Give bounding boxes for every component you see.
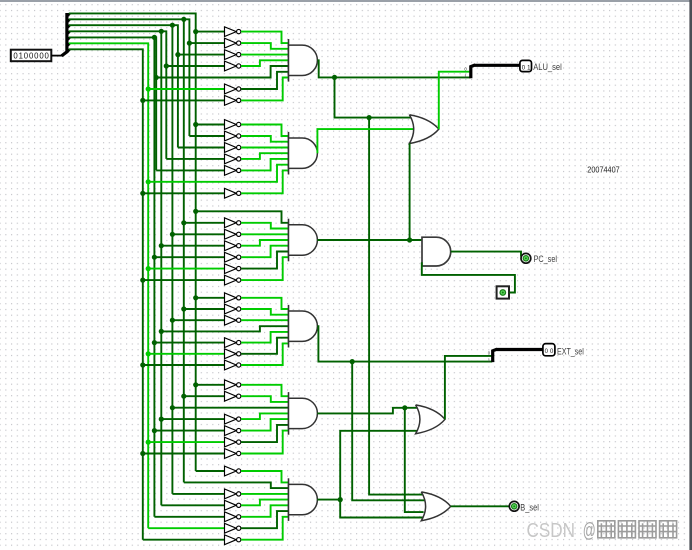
NOT gate G3R2 — [225, 218, 241, 228]
wire G5 row6 output — [241, 425, 289, 442]
NOT gate G5R4 — [225, 414, 241, 424]
wire G3 row3 output — [241, 233, 289, 235]
wire G1 row1 input — [196, 31, 225, 33]
NOT gate G6R5 — [225, 512, 241, 522]
wire AND6 branch up to OR2 input2 — [340, 431, 421, 500]
wire G4 row3 output — [241, 319, 289, 321]
wire G4 row5 input — [154, 342, 224, 344]
wire AND4 branch down to OR3 input2 (v x352) — [352, 362, 424, 501]
svg-text:0 1: 0 1 — [522, 65, 531, 71]
wire OR1 output to ALU splitter leg0 — [439, 72, 470, 129]
splitter SP3 (EXT_sel bus) — [488, 349, 497, 362]
wire G4 row4 plain — [161, 326, 288, 331]
wire G4 row2 input — [184, 308, 225, 310]
AND gate U5 — [289, 392, 318, 435]
input pin P0 (square, value 0) — [497, 286, 509, 298]
NOT gate G3R3 — [225, 229, 241, 239]
svg-text:PC_sel: PC_sel — [534, 254, 558, 264]
NOT gate G3R6 — [225, 264, 241, 274]
NOT gate G3R4 — [225, 241, 241, 251]
bus wire to ALU_sel pin — [475, 64, 520, 67]
wire G2 row2 output — [241, 136, 289, 142]
wire G5 row2 output — [241, 396, 289, 402]
input pin IN value 0100000 — [11, 50, 52, 62]
OR gate O1 (ALU bit0) — [409, 115, 438, 144]
output pin EXT_sel — [543, 344, 555, 356]
wire G2 row4 input — [166, 158, 224, 160]
wire G5 row7 input — [143, 453, 225, 455]
wire G2 row5 input — [156, 169, 224, 171]
wire G4 row2 output — [241, 309, 289, 315]
wire G6 row7 input — [143, 539, 225, 541]
wire G2 row1 input — [196, 124, 225, 126]
wire AND2 output to OR1 input2 — [317, 129, 414, 153]
NOT gate G4R6 — [225, 349, 241, 359]
wire G5 row7 output — [241, 431, 289, 454]
wire AND5 output to OR2 input1 — [317, 405, 418, 413]
wire G2 row7 input — [143, 192, 225, 194]
wire G5 row1 output — [241, 385, 289, 396]
wire OR2 output to EXT splitter leg0 — [445, 356, 492, 419]
wire AND3 output to PC AND gate — [317, 237, 422, 242]
wire G1 row6 output — [241, 72, 289, 89]
wire OR3 output to B_sel pin — [451, 505, 510, 507]
wire G3 row2 input — [184, 222, 225, 224]
wire G2 row3 input — [178, 147, 225, 149]
wire G1 row5 plain — [156, 66, 288, 78]
AND gate U2 — [289, 132, 318, 175]
wire G2 row5 output — [241, 159, 289, 171]
wire G5 row5 output — [241, 419, 289, 431]
wire G1 row6 input — [148, 88, 224, 90]
wire G3 row1 plain — [196, 211, 289, 223]
wire G3 row6 input — [148, 268, 224, 270]
wire G1 row7 input — [143, 99, 225, 101]
NOT gate G4R1 — [225, 293, 241, 303]
wire G3 row7 input — [143, 279, 225, 281]
wire P0 to PC AND input2 — [422, 262, 515, 292]
svg-text:ALU_sel: ALU_sel — [533, 62, 562, 72]
wire G6 row4 output — [241, 500, 289, 506]
NOT gate G3R5 — [225, 252, 241, 262]
wire G3 row7 output — [241, 257, 289, 280]
canvas right border — [689, 0, 692, 550]
bus bit6 wire (w1 / v7) — [69, 13, 198, 471]
wire G1 row3 output — [241, 54, 289, 56]
wire G1 row4 output — [241, 60, 289, 66]
NOT gate G2R2 — [225, 131, 241, 141]
svg-text:CSDN: CSDN — [527, 519, 576, 542]
wire G2 row1 output — [241, 125, 289, 137]
NOT gate G5R1 — [225, 380, 241, 390]
wire G1 row4 input — [166, 65, 224, 67]
label B_sel — [520, 502, 539, 512]
wire G2 row6 plain — [148, 165, 288, 182]
NOT gate G1R1 — [225, 27, 241, 37]
NOT gate G2R3 — [225, 143, 241, 153]
svg-text:B_sel: B_sel — [520, 502, 539, 512]
NOT gate G1R6 — [225, 84, 241, 94]
wire G5 row6 input — [148, 441, 224, 443]
bus bit1 wire BRIGHT (w6 / v2) — [69, 43, 151, 528]
wire AND5 branch down to OR3 input3 (v x404) — [405, 408, 424, 512]
NOT gate G1R7 — [225, 96, 241, 106]
wire branch up to OR1 bottom input — [409, 143, 411, 240]
OR gate O3 (B_sel) — [421, 492, 450, 521]
AND gate U3 — [289, 219, 318, 262]
splitter SP1 7-bit fanout — [62, 13, 70, 56]
NOT gate G5R7 — [225, 449, 241, 459]
wire G1 row7 output — [241, 78, 289, 101]
wire PC AND output to PC_sel pin — [451, 252, 521, 257]
wire G6 row1 output — [241, 471, 289, 482]
wire G1 row1 output — [241, 32, 289, 43]
NOT gate G1R3 — [225, 50, 241, 60]
NOT gate G1R4 — [225, 61, 241, 71]
wire G1 row3 input — [178, 54, 225, 56]
wire G6 row6 output — [241, 511, 289, 528]
NOT gate G5R5 — [225, 426, 241, 436]
wire G5 row1 input — [196, 384, 225, 386]
label EXT_sel — [557, 346, 584, 356]
text 20074407 — [587, 164, 620, 174]
NOT gate G2R4 — [225, 154, 241, 164]
NOT gate G5R6 — [225, 437, 241, 447]
wire AND1 branch down to OR3 input1 (v x369) — [369, 118, 425, 495]
NOT gate G3R7 — [225, 275, 241, 285]
output pin PC_sel — [521, 253, 531, 263]
wire G1 row2 input — [189, 42, 224, 44]
bus bit3 wire (w4 / s4 / v4) — [69, 29, 169, 506]
output pin B_sel — [509, 501, 519, 511]
wire G5 row4 output — [241, 413, 289, 419]
wire G1 row2 output — [241, 43, 289, 49]
NOT gate G6R1 — [225, 466, 241, 476]
canvas top border — [0, 0, 692, 2]
AND gate U4 — [289, 305, 318, 348]
wire G2 row7 output — [241, 170, 289, 193]
AND gate U1 — [289, 39, 318, 82]
NOT gate G4R7 — [225, 360, 241, 370]
wire G3 row5 output — [241, 246, 289, 258]
wire G4 row6 input — [148, 353, 224, 355]
NOT gate G2R1 — [225, 120, 241, 130]
AND gate U6 — [289, 478, 318, 521]
bus bit0 wire (w7 / v1) — [69, 49, 145, 539]
wire G6 row2 plain — [184, 482, 289, 488]
NOT gate G2R5 — [225, 166, 241, 176]
NOT gate G4R5 — [225, 338, 241, 348]
NOT gate G6R3 — [225, 489, 241, 499]
wire G3 row5 input — [154, 256, 224, 258]
wire G5 row5 input — [154, 430, 224, 432]
wire G3 row4 output — [241, 240, 289, 246]
svg-text:0 0: 0 0 — [545, 349, 554, 355]
splitter SP2 (ALU_sel bus) — [464, 65, 475, 78]
svg-text:0100000: 0100000 — [13, 52, 49, 61]
wire G3 row3 input — [172, 233, 224, 235]
NOT gate G4R3 — [225, 315, 241, 325]
wire G4 row3 input — [172, 319, 224, 321]
svg-text:20074407: 20074407 — [587, 164, 620, 174]
wire G5 row3 plain — [172, 407, 288, 409]
wire G6 row1 input — [196, 470, 225, 472]
svg-text:@: @ — [583, 519, 596, 542]
wire AND1 branch to OR1 input1 — [335, 77, 413, 120]
bus wire to EXT_sel pin — [497, 348, 544, 351]
AND gate U7 (PC) — [422, 237, 451, 266]
wire G3 row2 output — [241, 223, 289, 229]
wire G6 row4 input — [161, 504, 224, 506]
wire G6 row6 input — [148, 527, 224, 529]
bus bit4 wire (w3 / s3 / v5) — [69, 23, 181, 494]
wire G4 row5 output — [241, 332, 289, 343]
NOT gate G6R7 — [225, 535, 241, 545]
wire G4 row1 input — [196, 297, 225, 299]
wire G5 row4 input — [161, 418, 224, 420]
wire G4 row6 output — [241, 338, 289, 354]
wire G4 row7 input — [143, 364, 225, 366]
wire AND4 output to EXT splitter leg1 — [317, 326, 492, 364]
OR gate O2 (EXT) — [416, 405, 445, 434]
NOT gate G2R7 — [225, 188, 241, 198]
wire G3 row6 output — [241, 252, 289, 269]
output pin ALU_sel — [520, 60, 532, 71]
wire G4 row1 output — [241, 298, 289, 309]
wire G6 row3 input — [172, 493, 224, 495]
svg-text:EXT_sel: EXT_sel — [557, 346, 584, 356]
wire G4 row7 output — [241, 343, 289, 365]
wire AND6 output junction — [317, 497, 342, 502]
watermark CSDN @(hanzi) — [527, 519, 677, 542]
label ALU_sel — [533, 62, 562, 72]
wire G6 row5 output — [241, 505, 289, 517]
wire G2 row4 output — [241, 153, 289, 159]
label PC_sel — [534, 254, 558, 264]
bus bit2 wire (w5 / s5 / v3) — [69, 35, 159, 517]
wire G6 row3 output — [241, 493, 289, 495]
wire AND1 output to ALU splitter leg1 — [317, 60, 470, 80]
wire G2 row3 output — [241, 147, 289, 149]
wire input pin to splitter — [51, 55, 62, 57]
wire G2 row2 input — [189, 135, 224, 137]
wire G6 row7 output — [241, 517, 289, 540]
wire G5 row2 input — [184, 395, 225, 397]
NOT gate G1R2 — [225, 38, 241, 48]
wire AND6 branch down to OR3 bottom input — [340, 500, 423, 518]
NOT gate G4R2 — [225, 304, 241, 314]
wire G6 row5 input — [154, 516, 224, 518]
NOT gate G5R2 — [225, 391, 241, 401]
wire G3 row4 input — [161, 245, 224, 247]
NOT gate G6R4 — [225, 500, 241, 510]
NOT gate G6R6 — [225, 523, 241, 533]
bus bit5 wire (w2 / s2 / v6) — [69, 17, 192, 483]
